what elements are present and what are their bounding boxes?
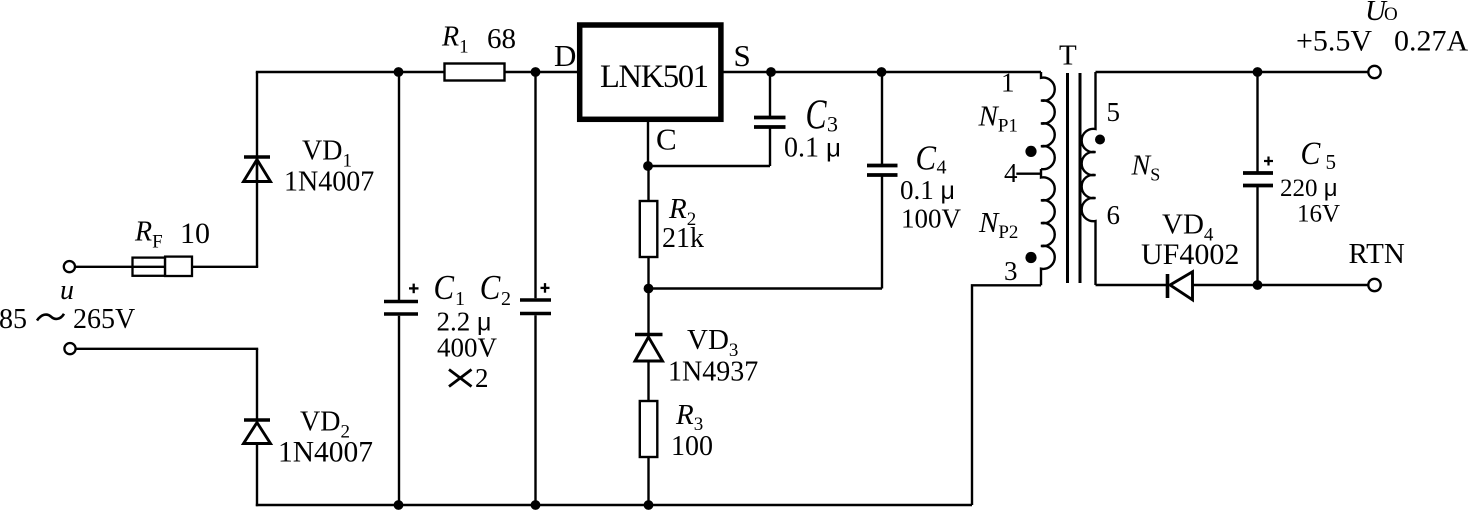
- wire: [256, 72, 258, 182]
- op-amp U1 LNK501 box: [580, 25, 721, 119]
- transformer primary winding NP2: [1041, 169, 1055, 285]
- svg-text:6: 6: [1107, 200, 1121, 230]
- svg-text:D: D: [554, 38, 576, 73]
- transformer primary winding NP1: [1041, 72, 1055, 169]
- terminal output top: [1368, 66, 1380, 78]
- svg-text:2: 2: [475, 363, 489, 393]
- wire C pin: [647, 121, 649, 166]
- node dot: [877, 67, 887, 77]
- svg-text:16V: 16V: [1297, 201, 1340, 228]
- wire: [648, 165, 770, 167]
- node dot: [1253, 67, 1263, 77]
- node dot C: [643, 161, 653, 171]
- svg-text:R1: R1: [441, 22, 469, 58]
- svg-text:C: C: [916, 140, 937, 178]
- node dot: [394, 67, 404, 77]
- svg-text:400V: 400V: [437, 333, 498, 363]
- svg-text:0.27A: 0.27A: [1394, 25, 1469, 58]
- wire pin 3: [972, 285, 1041, 505]
- svg-text:C: C: [1301, 135, 1322, 172]
- capacitor C5: [1256, 72, 1258, 172]
- svg-text:85: 85: [0, 304, 27, 335]
- diode VD4: [1168, 272, 1193, 300]
- polarity dot NP2: [1025, 252, 1036, 263]
- resistor R1: [445, 64, 505, 81]
- svg-text:2: 2: [501, 288, 511, 310]
- svg-text:1N4937: 1N4937: [668, 357, 758, 388]
- fuse RF box: [133, 258, 166, 276]
- transformer secondary winding NS: [1082, 72, 1096, 285]
- svg-text:RF: RF: [134, 217, 163, 253]
- capacitor C2: [534, 72, 536, 298]
- capacitor C1: [398, 72, 400, 300]
- svg-text:220 μ: 220 μ: [1280, 175, 1338, 202]
- wire: [75, 266, 165, 268]
- svg-text:VD3: VD3: [687, 324, 738, 361]
- resistor RF box: [165, 257, 192, 276]
- wire secondary top rail: [1096, 71, 1369, 73]
- svg-text:S: S: [734, 38, 751, 73]
- node dot: [1253, 280, 1263, 290]
- node dot: [531, 67, 541, 77]
- svg-text:10: 10: [180, 217, 210, 250]
- wire: [256, 349, 258, 420]
- svg-text:0.1 μ: 0.1 μ: [784, 133, 841, 164]
- wire S rail: [723, 71, 1041, 73]
- wire: [256, 444, 258, 507]
- svg-text:UF4002: UF4002: [1141, 238, 1239, 271]
- svg-text:5: 5: [1326, 150, 1337, 174]
- wire: [256, 159, 258, 267]
- node dot: [644, 500, 654, 510]
- wire: [192, 266, 258, 268]
- svg-text:NS: NS: [1131, 151, 1161, 185]
- svg-text:NP1: NP1: [978, 101, 1018, 137]
- svg-text:C: C: [480, 269, 501, 307]
- svg-text:LNK501: LNK501: [600, 59, 708, 95]
- wire top rail: [256, 71, 578, 73]
- wire C4 bottom: [649, 287, 883, 289]
- svg-text:+5.5V: +5.5V: [1296, 25, 1372, 58]
- resistor R2: [647, 166, 649, 201]
- svg-text:1: 1: [1001, 68, 1015, 98]
- node dot: [531, 500, 541, 510]
- label tilde of 85~265V: [37, 314, 64, 321]
- resistor R3: [640, 401, 658, 457]
- node dot: [766, 67, 776, 77]
- svg-text:T: T: [1059, 40, 1077, 72]
- svg-text:21k: 21k: [662, 223, 704, 254]
- wire: [647, 361, 649, 401]
- diode VD3: [635, 335, 663, 362]
- diode VD1: [244, 157, 271, 182]
- polarity dot NP1: [1025, 146, 1036, 157]
- terminal input bottom: [64, 343, 75, 354]
- svg-text:1N4007: 1N4007: [278, 437, 373, 469]
- svg-text:RTN: RTN: [1349, 238, 1405, 270]
- svg-text:265V: 265V: [73, 304, 135, 335]
- svg-text:C: C: [656, 122, 677, 157]
- terminal output RTN: [1368, 279, 1380, 291]
- svg-text:68: 68: [487, 23, 516, 55]
- label multiply sign of x2: [449, 370, 472, 387]
- wire: [647, 289, 649, 335]
- svg-text:5: 5: [1107, 97, 1121, 127]
- diode VD2: [244, 420, 271, 444]
- terminal input top: [64, 261, 75, 272]
- wire secondary bottom: [1096, 284, 1167, 286]
- svg-text:100V: 100V: [901, 204, 962, 234]
- svg-text:C: C: [434, 269, 455, 307]
- capacitor C3: [769, 129, 771, 167]
- capacitor C4: [881, 177, 883, 289]
- svg-text:3: 3: [1004, 256, 1018, 286]
- svg-text:R3: R3: [675, 399, 703, 435]
- svg-text:u: u: [60, 275, 74, 306]
- wire bottom rail: [256, 504, 972, 506]
- svg-text:NP2: NP2: [978, 207, 1018, 243]
- svg-text:100: 100: [671, 431, 713, 462]
- node dot: [644, 284, 654, 294]
- pin 4 stub: [1016, 172, 1041, 174]
- transformer core: [1066, 73, 1069, 283]
- wire: [76, 348, 259, 350]
- node dot: [394, 500, 404, 510]
- svg-text:0.1 μ: 0.1 μ: [900, 175, 955, 205]
- svg-text:1N4007: 1N4007: [284, 167, 374, 198]
- polarity dot NS: [1095, 135, 1105, 145]
- svg-text:4: 4: [1004, 158, 1018, 188]
- svg-text:O: O: [1384, 4, 1398, 25]
- wire: [1193, 284, 1369, 286]
